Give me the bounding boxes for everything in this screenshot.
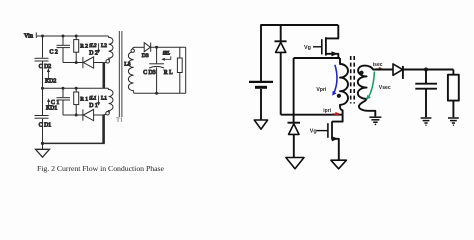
svg-text:D 1: D 1 — [89, 103, 98, 109]
svg-text:C D3: C D3 — [143, 70, 156, 76]
svg-text:Vsec: Vsec — [379, 85, 391, 91]
ground output capacitor earth — [421, 118, 432, 125]
svg-text:R L: R L — [164, 70, 173, 76]
node dot output bottom — [155, 92, 158, 95]
label ipri red arrow — [323, 108, 340, 116]
winding L1 primary bottom — [104, 88, 113, 115]
wire D1 anode to winding node — [94, 114, 104, 116]
ground output resistor earth — [448, 118, 459, 125]
svg-text:Vpri: Vpri — [316, 87, 326, 93]
resistor R2 — [74, 36, 89, 63]
ground secondary earth — [369, 117, 381, 124]
wire output bottom rail — [135, 92, 186, 94]
current arrow KD2 — [45, 68, 56, 84]
wire left rail middle — [42, 62, 44, 116]
wire snubber rail bottom cell — [63, 114, 83, 116]
svg-text:iL2: iL2 — [89, 43, 96, 49]
diode D1 — [83, 103, 98, 121]
svg-text:R 2: R 2 — [80, 44, 88, 50]
svg-text:isec: isec — [373, 62, 383, 68]
wire snubber rail top cell — [63, 62, 83, 64]
label current iRL with bent arrow — [161, 52, 171, 61]
node dot R1 bottom — [75, 114, 78, 117]
transformer core dashed — [351, 56, 355, 104]
diode D2 clamp lower — [288, 123, 301, 158]
wire left rail lower — [42, 119, 44, 144]
diode D2 — [83, 50, 98, 68]
node dot R2 bottom — [75, 61, 78, 64]
node Vin label — [24, 33, 43, 40]
svg-text:Vg: Vg — [310, 129, 317, 135]
capacitor C1 — [57, 88, 71, 115]
diode D3 output — [393, 64, 403, 79]
wire left rail upper — [42, 36, 44, 58]
capacitor CD2 — [35, 58, 52, 70]
current arrow KD1 — [46, 98, 59, 111]
svg-text:R 1: R 1 — [80, 96, 88, 102]
wire thick current path lower — [102, 115, 105, 144]
wire output right edge — [185, 47, 187, 93]
winding L3 secondary — [124, 47, 135, 93]
svg-text:ipri: ipri — [323, 108, 331, 114]
node dot output top — [155, 46, 158, 49]
ground battery — [254, 120, 267, 129]
resistor output load — [448, 70, 459, 118]
transformer T1 core — [116, 31, 123, 124]
wire top rail left cell — [43, 35, 109, 37]
svg-text:iRL: iRL — [163, 52, 170, 57]
capacitor CD3 — [143, 47, 164, 93]
svg-text:C D1: C D1 — [39, 123, 52, 129]
resistor R1 — [74, 88, 89, 115]
svg-text:KD1: KD1 — [46, 106, 57, 112]
wire node A rail — [294, 57, 340, 59]
wire node B rail — [281, 114, 343, 116]
svg-text:L1: L1 — [101, 95, 107, 101]
wire thick current path upper — [103, 63, 106, 89]
svg-text:Vg: Vg — [304, 45, 311, 51]
wire node A drop — [293, 58, 295, 123]
svg-text:iL1: iL1 — [89, 95, 96, 101]
transformer primary winding — [337, 58, 348, 115]
svg-text:L3: L3 — [124, 62, 130, 68]
svg-text:KD2: KD2 — [45, 79, 56, 85]
winding L2 primary top — [104, 36, 113, 63]
svg-text:T1: T1 — [116, 118, 123, 124]
node dot output — [424, 68, 428, 72]
ground bottom MOSFET — [331, 160, 347, 169]
ground main — [36, 143, 50, 157]
wire secondary to output diode — [373, 69, 394, 71]
svg-text:Fig. 2 Current Flow in Conduct: Fig. 2 Current Flow in Conduction Phase — [37, 164, 165, 173]
svg-text:Vin: Vin — [24, 33, 33, 40]
svg-text:C D2: C D2 — [39, 64, 52, 70]
transformer secondary winding — [358, 66, 375, 117]
node dot bottom rail — [41, 142, 44, 145]
svg-text:D3: D3 — [142, 53, 149, 59]
ground clamp diode — [286, 158, 304, 169]
wire output top rail — [151, 46, 186, 48]
capacitor output — [415, 70, 437, 118]
transistor Q2 bottom MOSFET — [317, 115, 343, 160]
wire D2 anode to winding node — [94, 62, 104, 64]
diode D1 clamp upper — [275, 25, 287, 115]
wire secondary top — [135, 46, 144, 48]
capacitor CD1 — [35, 116, 52, 129]
label R2 current iL2 with down arrow — [89, 43, 107, 54]
label isec magenta arrow — [373, 62, 384, 71]
wire output rail — [403, 69, 454, 71]
diode D3 — [142, 43, 151, 59]
svg-text:C 2: C 2 — [50, 50, 58, 56]
label current iL1 with down arrow — [89, 95, 107, 106]
label Vpri with blue arc arrow — [316, 65, 337, 96]
resistor RL — [164, 47, 182, 93]
wire mid rail — [43, 87, 109, 89]
wire bottom rail — [43, 142, 105, 144]
node junction dots mid rail — [41, 87, 78, 90]
svg-text:D 2: D 2 — [89, 50, 98, 56]
transistor Q1 top MOSFET — [313, 25, 338, 58]
battery V1 — [249, 82, 273, 120]
wire Vin top rail — [261, 25, 338, 82]
label Vsec with green arc arrow — [366, 72, 391, 100]
svg-text:L2: L2 — [101, 43, 107, 49]
node junction dots top rail — [41, 35, 78, 38]
capacitor C2 — [50, 36, 71, 63]
